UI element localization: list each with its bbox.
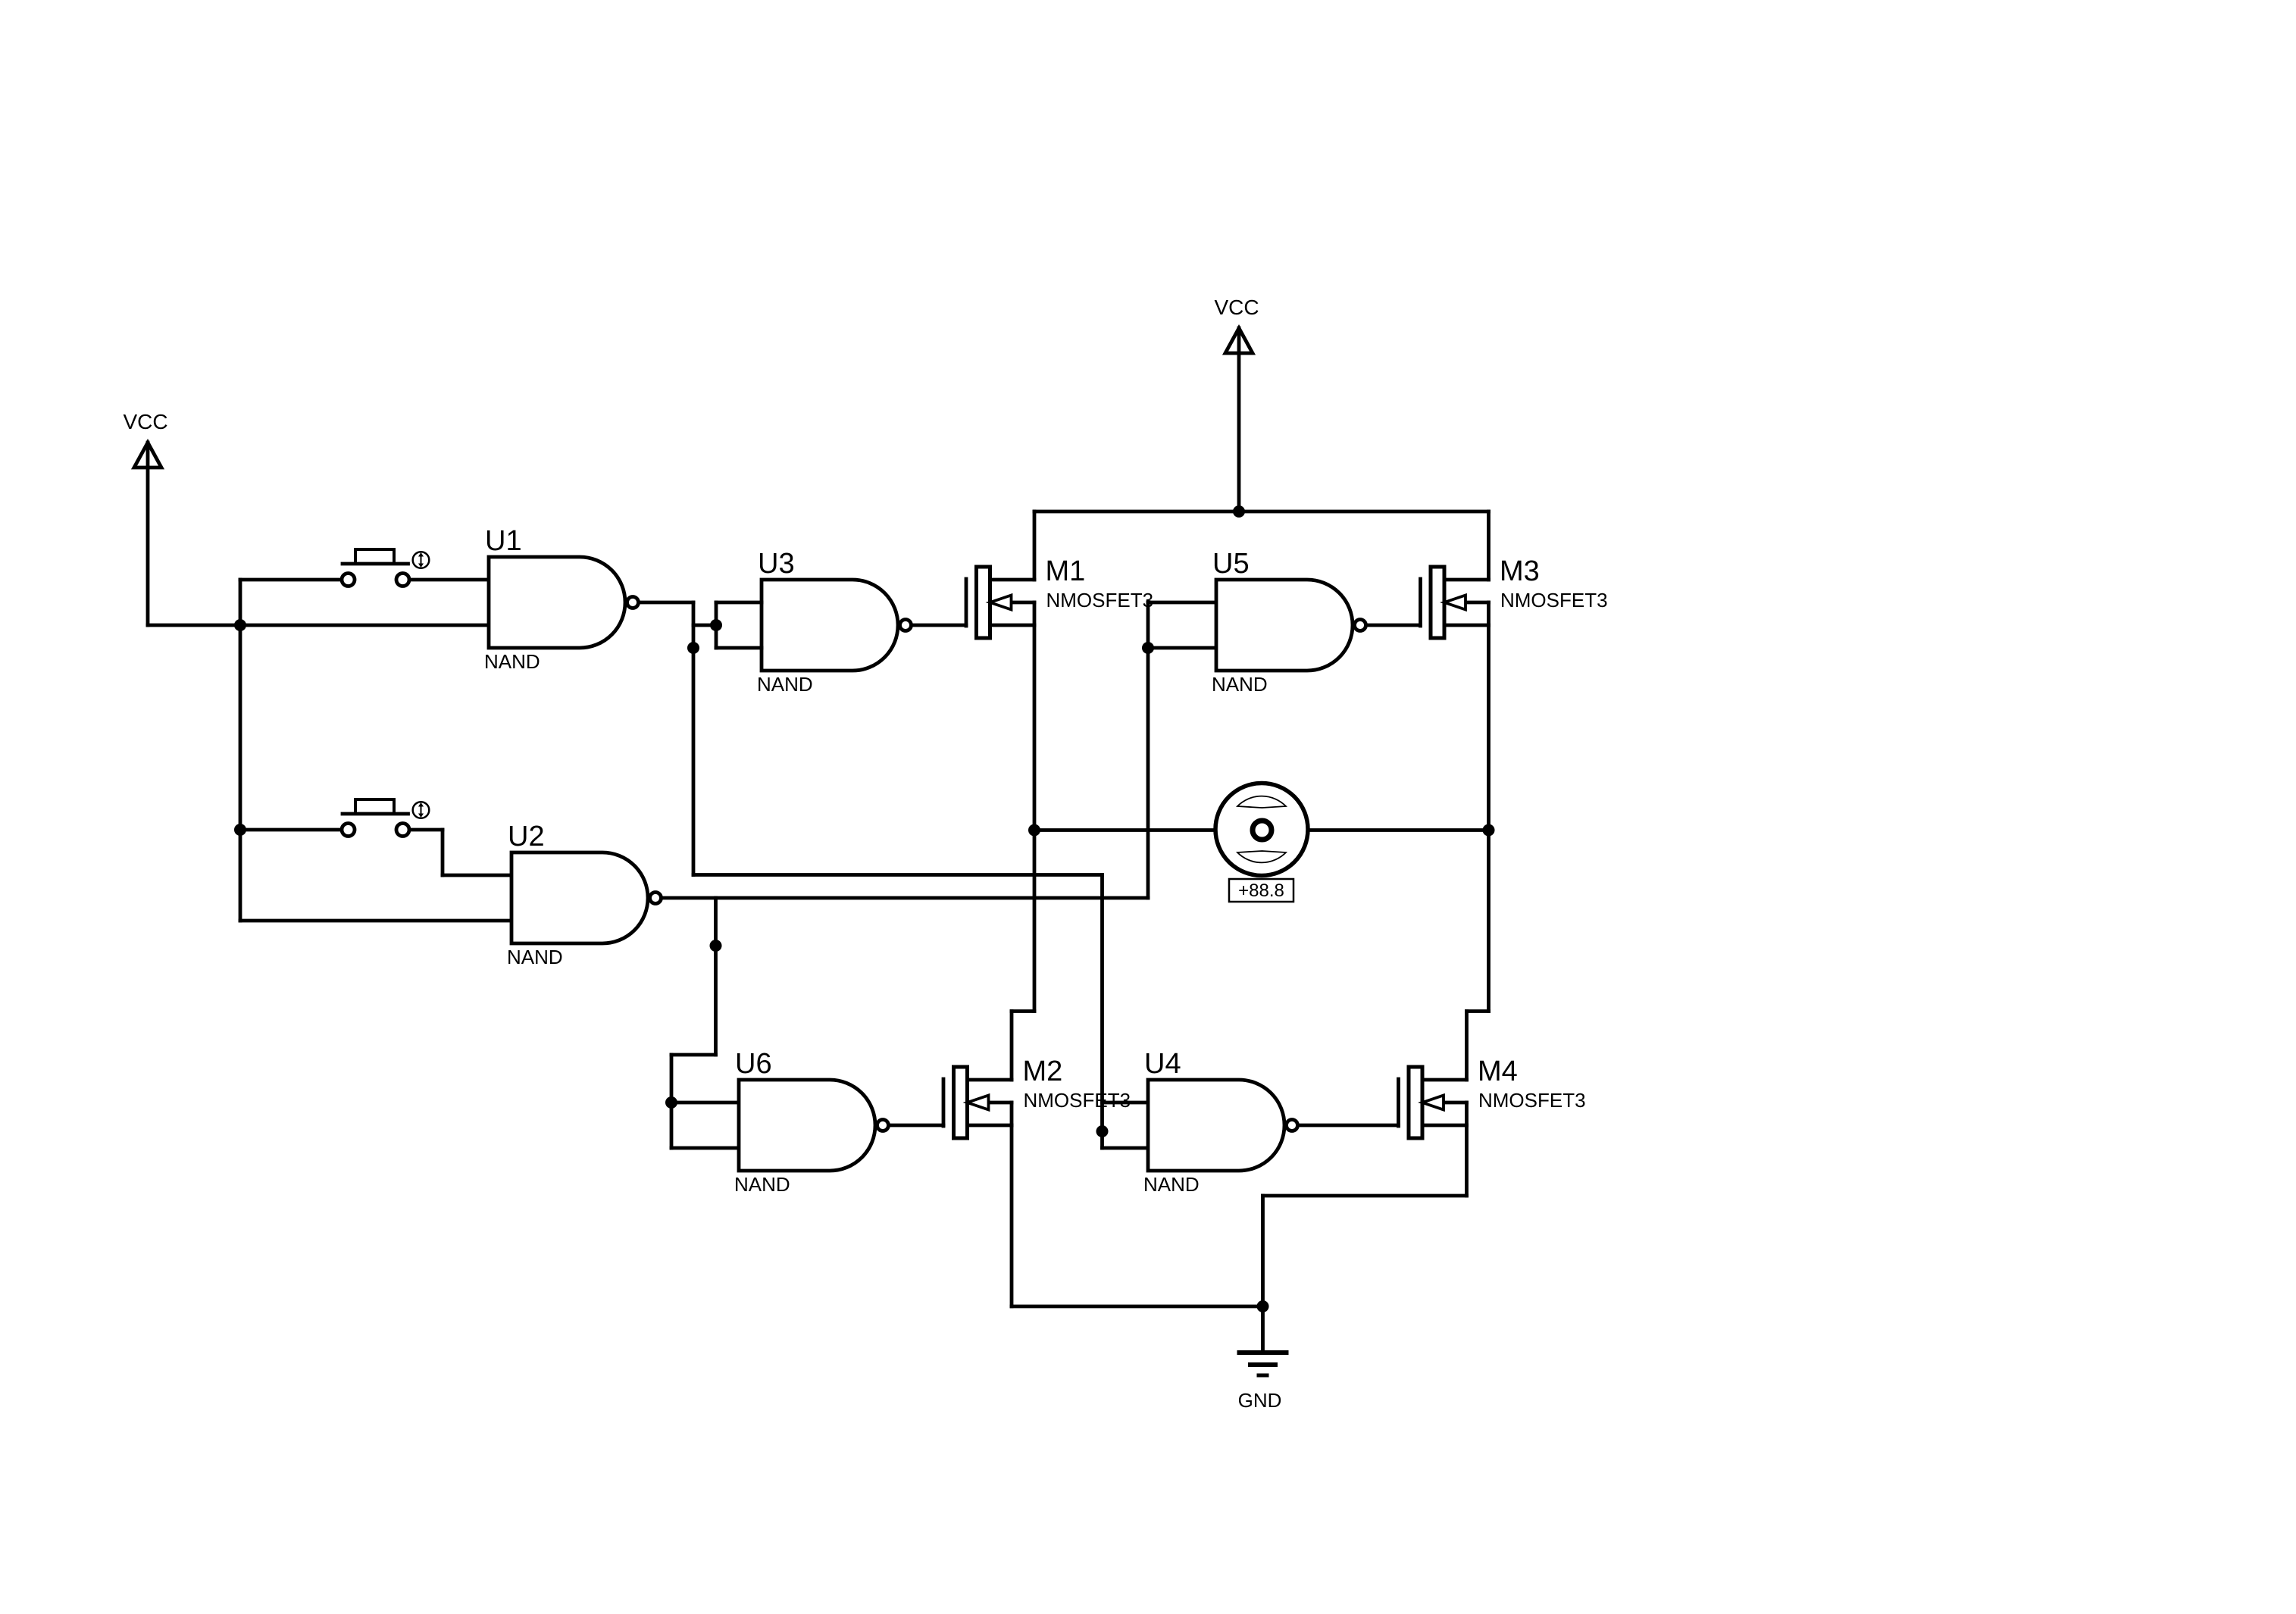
junction ground node [1257, 1300, 1269, 1312]
svg-text:U5: U5 [1212, 548, 1250, 580]
junction at U6 input A tee [665, 1096, 677, 1109]
NAND gate U4 [1143, 1048, 1298, 1196]
svg-text:VCC: VCC [1214, 296, 1259, 319]
wire to motor left terminal [1034, 828, 1215, 832]
power symbol VCC (left) [123, 410, 167, 468]
motor value label +88.8 [1229, 879, 1293, 902]
svg-text:U1: U1 [485, 525, 522, 557]
svg-text:M3: M3 [1500, 555, 1540, 587]
wire M4 source down [1465, 1125, 1469, 1196]
wire U3 output to M1 gate [913, 624, 966, 627]
push button S2 (momentary push button) [342, 799, 429, 837]
wire down to M4 drain [1465, 1012, 1469, 1081]
junction on VCC rail at x=317 [234, 619, 246, 631]
NAND gate U6 [734, 1048, 889, 1196]
wire down to U4 inputs [1100, 875, 1104, 1149]
wire to S2 left terminal [240, 828, 341, 832]
wire to U2 input A [443, 874, 511, 877]
wire U5 output to M3 gate [1368, 624, 1421, 627]
svg-text:NMOSFET3: NMOSFET3 [1046, 589, 1154, 612]
NAND gate U3 [757, 548, 912, 696]
svg-text:M2: M2 [1023, 1056, 1063, 1087]
junction node on U1 output vertical [687, 642, 699, 654]
push button S1 (momentary push button) [342, 549, 429, 586]
wire VCC left stem [146, 443, 150, 625]
wire top VCC rail [1034, 510, 1489, 514]
wire S1 to U1 input A [410, 578, 489, 582]
wire U4 output to M4 gate [1300, 1124, 1399, 1128]
wire to U6 input A [671, 1101, 739, 1105]
ground GND [1238, 1306, 1287, 1412]
transistor M3 NMOSFET3 [1421, 555, 1608, 638]
power symbol VCC (top) [1214, 296, 1259, 353]
junction at U5 input B tee [1142, 642, 1154, 654]
junction node on U4 input vertical [1096, 1125, 1109, 1137]
wire to U5 input B [1148, 646, 1216, 650]
wire VCC top stem [1237, 328, 1241, 511]
wire to U3 input B [716, 646, 762, 650]
motor MG1 [1215, 784, 1308, 876]
transistor M1 NMOSFET3 [966, 555, 1153, 638]
wire to U5 input A [1148, 601, 1216, 605]
transistor M4 NMOSFET3 [1399, 1056, 1586, 1138]
wire vertical bus x=317 [239, 580, 242, 921]
wire to S1 left terminal [240, 578, 341, 582]
wire U1 output down [692, 602, 696, 875]
NAND gate U1 [484, 525, 639, 673]
wire to U6 input B [671, 1146, 739, 1150]
wire S2 right terminal [410, 828, 443, 832]
svg-text:GND: GND [1238, 1389, 1282, 1412]
svg-text:U2: U2 [508, 821, 545, 852]
wire U3 input tie [715, 602, 718, 648]
wire M3 source down [1487, 625, 1491, 1012]
svg-text:NAND: NAND [484, 650, 540, 673]
svg-text:+88.8: +88.8 [1238, 881, 1284, 901]
wire M1 source down [1033, 625, 1037, 1012]
wire S2 down [441, 830, 445, 875]
junction at S2 wire [234, 824, 246, 836]
wire M1 drain up [1033, 511, 1037, 580]
wire ground rail [1012, 1305, 1263, 1309]
svg-text:U3: U3 [758, 548, 795, 580]
svg-text:M4: M4 [1478, 1056, 1518, 1087]
wire VCC rail to U1 input B [148, 624, 489, 627]
wire M3 drain up [1487, 511, 1491, 580]
wire U1 net to U3 inputs [693, 624, 716, 627]
NAND gate U5 [1212, 548, 1366, 696]
svg-text:U6: U6 [735, 1048, 772, 1080]
wire M2 source down [1010, 1125, 1014, 1306]
wire branch down to U6 [714, 898, 718, 1055]
svg-text:NMOSFET3: NMOSFET3 [1024, 1089, 1131, 1112]
transistor M2 NMOSFET3 [943, 1056, 1131, 1138]
svg-text:NAND: NAND [734, 1173, 790, 1196]
wire motor right terminal [1308, 828, 1489, 832]
svg-text:NMOSFET3: NMOSFET3 [1478, 1089, 1586, 1112]
wire bus to U2 input B [240, 919, 511, 923]
wire down to U6 inputs [670, 1055, 674, 1148]
svg-text:M1: M1 [1046, 555, 1086, 587]
junction motor left node [1028, 824, 1040, 837]
svg-text:NAND: NAND [1212, 673, 1268, 696]
wire U1 output across [693, 873, 1103, 877]
NAND gate U2 [507, 821, 662, 968]
wire jog to M4 drain [1467, 1009, 1489, 1013]
wire to U3 input A [716, 601, 762, 605]
svg-text:NAND: NAND [1143, 1173, 1200, 1196]
wire down to M2 drain [1010, 1012, 1014, 1081]
wire jog to M2 drain [1012, 1009, 1034, 1013]
svg-text:U4: U4 [1144, 1048, 1181, 1080]
wire U6 output to M2 gate [890, 1124, 943, 1128]
svg-text:NMOSFET3: NMOSFET3 [1500, 589, 1608, 612]
wire M4 source to ground rail [1261, 1196, 1265, 1306]
wire jog left to U6 [671, 1053, 716, 1057]
wire U2 output across [663, 896, 1148, 900]
wire to U4 input A [1103, 1101, 1149, 1105]
wire U2 output up to U5 [1146, 602, 1150, 898]
junction VCC stem [1233, 505, 1245, 518]
svg-text:NAND: NAND [757, 673, 813, 696]
junction motor right node [1483, 824, 1495, 837]
wire U1 output [640, 601, 693, 605]
wire M4 source across [1263, 1194, 1467, 1198]
wire to U4 input B [1103, 1146, 1149, 1150]
junction node on U6 feed [710, 940, 722, 952]
junction at U3 input tie [710, 619, 722, 631]
svg-text:NAND: NAND [507, 946, 563, 968]
svg-text:VCC: VCC [123, 410, 167, 433]
